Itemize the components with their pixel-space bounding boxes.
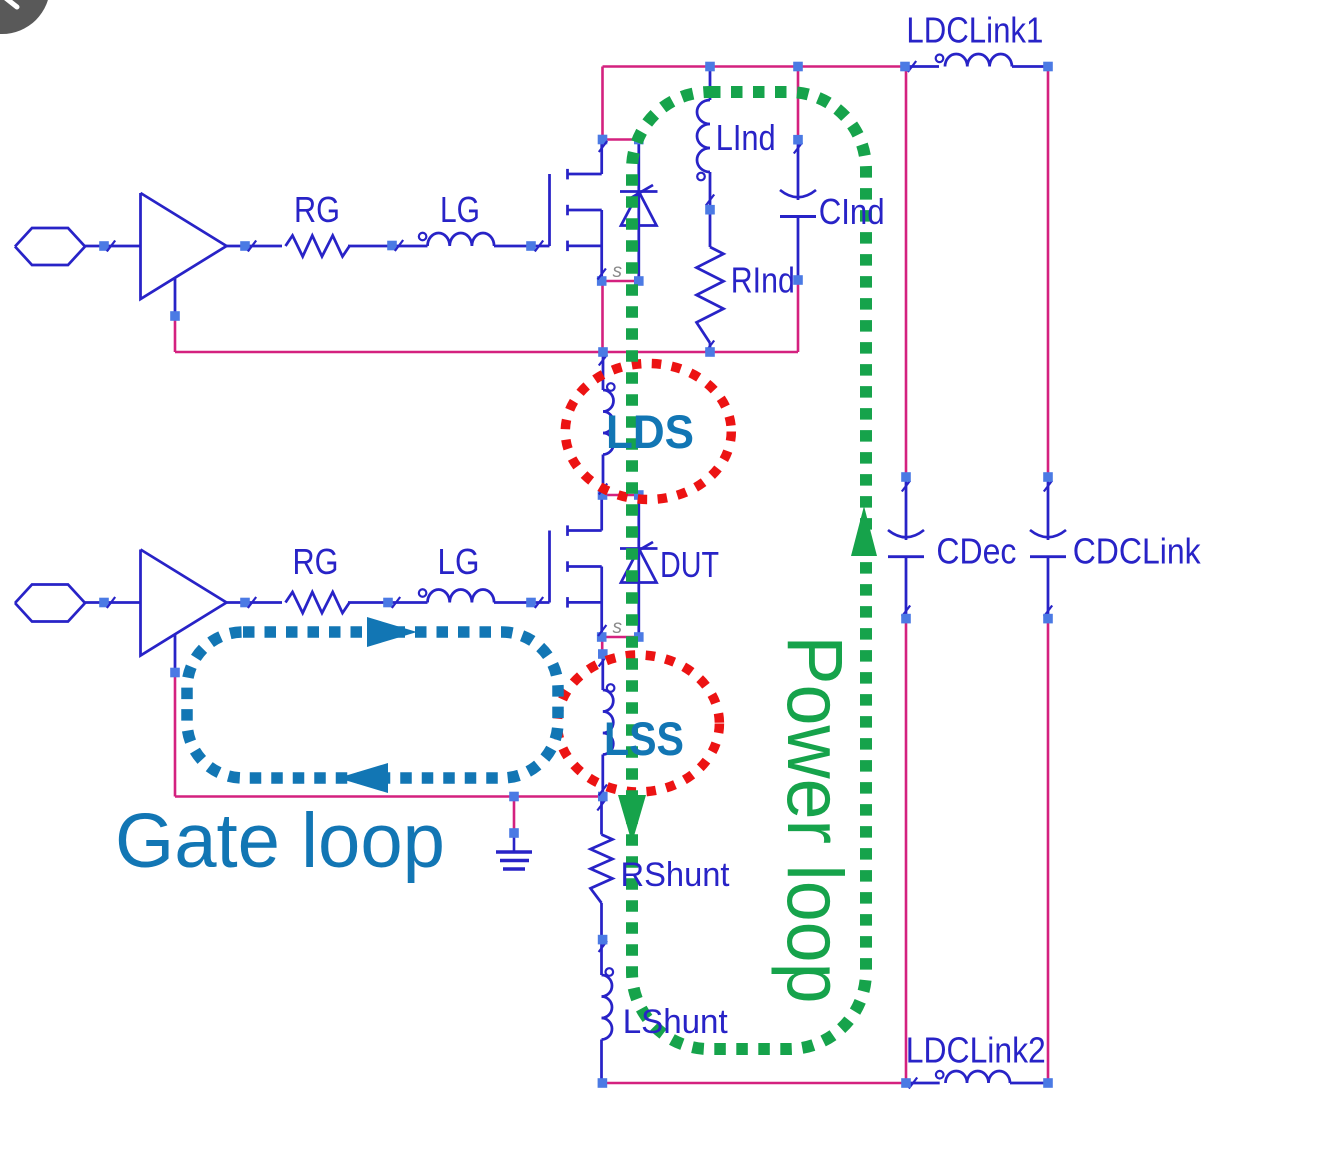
- wire left DC-link vertical upper (pink): [905, 67, 908, 478]
- svg-text:LShunt: LShunt: [623, 1003, 729, 1041]
- resistor RInd (load): [697, 247, 724, 343]
- wire RG to LG (driver 1): [348, 245, 428, 248]
- label LDCLink2: [906, 1030, 1046, 1071]
- wire DUT source to diode bottom (pink): [602, 636, 639, 639]
- gate loop dashed path: [187, 632, 558, 778]
- svg-text:CInd: CInd: [819, 191, 885, 232]
- capacitor CInd: [780, 190, 816, 280]
- label Gate loop: [115, 798, 445, 884]
- label LG (driver 1): [440, 189, 480, 230]
- label RInd: [731, 260, 795, 301]
- transistor M1 (top MOSFET): [550, 140, 602, 282]
- wire M1 source to body diode bottom (pink): [602, 280, 639, 283]
- label CDec: [936, 531, 1016, 572]
- label LDS: [606, 405, 694, 458]
- wire M1 source down to junction (pink): [601, 281, 604, 352]
- wire LG to DUT gate: [494, 601, 550, 604]
- label LDCLink1: [906, 10, 1043, 51]
- wire driver2 return rail (pink): [175, 795, 603, 798]
- gate loop arrow right: [367, 617, 417, 647]
- gate loop arrow left: [338, 763, 388, 793]
- wire RShunt to LShunt: [599, 903, 607, 975]
- inductor LDS (parasitic): [599, 352, 615, 495]
- wire ground stem (pink): [513, 797, 516, 834]
- terminal tick marks: [107, 141, 607, 796]
- wire DUT source to LSS (pink): [601, 637, 604, 654]
- label LSS: [604, 712, 684, 765]
- inductor LG (driver 2): [419, 589, 494, 602]
- svg-text:RG: RG: [294, 189, 340, 230]
- wire CDCLink top lead: [1044, 477, 1052, 540]
- svg-text:CDCLink: CDCLink: [1073, 531, 1202, 572]
- wire RG to LG (driver 2): [348, 601, 428, 604]
- inductor LG (driver 1): [419, 233, 494, 246]
- wire right DC-link vertical upper (pink): [1047, 67, 1050, 478]
- svg-text:LSS: LSS: [604, 712, 684, 765]
- label Power loop: [771, 636, 859, 1004]
- capacitor CDCLink: [1030, 530, 1066, 619]
- port hexagon P1: [15, 228, 85, 265]
- inductor LInd (load): [697, 100, 714, 247]
- wire driver1 return rail (pink): [175, 351, 798, 354]
- wire CInd bottom drop (pink): [797, 280, 800, 352]
- wire M1 drain to body diode top (pink): [603, 138, 639, 141]
- label LShunt: [623, 1003, 729, 1041]
- svg-text:LG: LG: [440, 189, 480, 230]
- resistor RG (driver 1): [286, 236, 350, 257]
- label LInd: [716, 117, 776, 158]
- wire RInd to rail: [706, 341, 714, 353]
- wire right DC-link vertical lower (pink): [1047, 619, 1050, 1083]
- svg-text:LInd: LInd: [716, 117, 776, 158]
- svg-text:RG: RG: [293, 541, 339, 582]
- svg-text:LDCLink1: LDCLink1: [906, 10, 1043, 51]
- svg-text:RShunt: RShunt: [621, 856, 731, 894]
- ground symbol: [496, 833, 532, 869]
- wire CInd top drop (pink): [797, 67, 800, 140]
- wire LG to M1 gate: [494, 245, 550, 248]
- body diode of DUT: [620, 495, 658, 637]
- wire U1 feedback stub: [174, 277, 177, 316]
- label s pin of DUT: [613, 617, 623, 638]
- wire U2 feedback stub: [174, 634, 177, 673]
- wire CInd top lead: [794, 140, 802, 200]
- decorative corner circle: [0, 0, 50, 34]
- label RShunt: [621, 856, 731, 894]
- inductor LShunt: [602, 968, 614, 1083]
- wire U2 output: [227, 601, 283, 604]
- inductor LSS (parasitic): [599, 654, 615, 797]
- svg-text:CDec: CDec: [936, 531, 1016, 572]
- power loop dashed path: [632, 92, 866, 1049]
- wire top-left drop to M1 drain (pink): [601, 67, 604, 140]
- wire top rail (pink): [603, 65, 906, 68]
- red dotted ellipse around LSS: [557, 655, 719, 792]
- svg-text:LG: LG: [438, 541, 480, 582]
- wire P2 to buffer U2: [85, 601, 141, 604]
- wire top rail to LInd: [709, 67, 712, 101]
- resistor RShunt: [591, 835, 613, 904]
- buffer U1 (gate driver 1): [141, 193, 227, 299]
- inductor LDCLink2: [906, 1071, 1048, 1089]
- port hexagon P2: [15, 585, 85, 622]
- red dotted ellipse around LDS: [565, 364, 731, 500]
- svg-text:Power loop: Power loop: [771, 636, 859, 1004]
- capacitor CDec: [888, 530, 924, 619]
- svg-text:RInd: RInd: [731, 260, 795, 301]
- wire left DC-link vertical lower (pink): [905, 619, 908, 1083]
- svg-text:LDS: LDS: [606, 405, 694, 458]
- wire driver2 triangle drop (pink): [174, 673, 177, 797]
- svg-text:Gate loop: Gate loop: [115, 798, 445, 884]
- label RG (driver 1): [294, 189, 340, 230]
- label LG (driver 2): [438, 541, 480, 582]
- wire P1 to buffer U1: [85, 245, 141, 248]
- resistor RG (driver 2): [286, 592, 350, 613]
- junction node squares: [99, 62, 1053, 1088]
- inductor LDCLink1: [905, 54, 1048, 72]
- transistor DUT (MOSFET under test): [550, 495, 602, 637]
- wire CDec top lead: [902, 477, 910, 540]
- svg-text:LDCLink2: LDCLink2: [906, 1030, 1046, 1071]
- svg-text:s: s: [613, 617, 623, 638]
- wire DUT drain node to diode (pink): [603, 494, 639, 497]
- label CInd: [819, 191, 885, 232]
- body diode of M1: [620, 140, 658, 282]
- wire bottom rail (pink): [602, 1082, 906, 1085]
- svg-text:DUT: DUT: [660, 544, 719, 585]
- svg-text:s: s: [613, 261, 623, 282]
- wire driver1 triangle drop (pink): [174, 316, 177, 352]
- wire U1 output: [227, 245, 283, 248]
- label DUT: [660, 544, 719, 585]
- power loop arrow up: [851, 506, 877, 556]
- buffer U2 (gate driver 2): [141, 550, 227, 656]
- power loop arrow down: [618, 795, 646, 843]
- label CDCLink: [1073, 531, 1202, 572]
- label RG (driver 2): [293, 541, 339, 582]
- label s pin of M1: [613, 261, 623, 282]
- wire LSS to RShunt: [597, 797, 605, 835]
